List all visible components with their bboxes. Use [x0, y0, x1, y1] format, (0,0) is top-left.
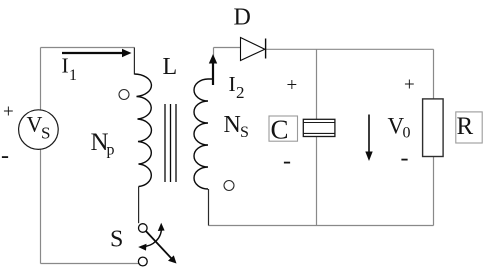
svg-text:+: +: [404, 75, 415, 96]
switch S: [138, 223, 176, 266]
svg-text:N: N: [224, 112, 241, 138]
switch top contact: [139, 224, 148, 233]
wire: left vertical lower (source bottom lead): [40, 150, 42, 264]
wire: top-left horizontal from source to primary: [41, 47, 135, 49]
svg-text:R: R: [457, 113, 474, 140]
arrow I2: [209, 54, 217, 85]
svg-text:0: 0: [403, 125, 411, 142]
diode D: [241, 38, 266, 61]
svg-text:I: I: [62, 54, 69, 78]
svg-text:S: S: [41, 124, 50, 143]
wire: primary bottom lead to switch: [138, 187, 140, 224]
wire: secondary bottom lead: [208, 189, 210, 226]
transformer core: [165, 104, 176, 182]
resistor R body: [423, 99, 444, 157]
inductor primary winding Np: [134, 74, 151, 187]
arrow I1: [62, 49, 132, 57]
wire: right vertical to resistor top: [433, 49, 435, 99]
phase dot primary: [119, 90, 129, 100]
svg-text:1: 1: [69, 67, 77, 84]
svg-text:+: +: [3, 102, 14, 123]
wire: resistor bottom lead: [433, 157, 435, 226]
wire: top horizontal diode-to-right corner: [266, 48, 434, 50]
wire: capacitor branch vertical: [316, 49, 318, 225]
wire: bottom-left horizontal to switch: [41, 263, 139, 265]
switch bottom contact: [138, 257, 147, 266]
svg-text:-: -: [283, 149, 291, 175]
capacitor C symbol: [303, 119, 335, 136]
svg-text:S: S: [110, 227, 123, 253]
svg-text:-: -: [1, 143, 9, 169]
svg-text:L: L: [163, 54, 178, 80]
wire: bottom-right horizontal: [209, 225, 434, 227]
phase dot secondary: [224, 181, 234, 191]
svg-text:2: 2: [236, 83, 245, 102]
svg-text:+: +: [287, 75, 298, 96]
wire: top horizontal secondary-to-diode: [214, 47, 241, 49]
svg-text:C: C: [271, 115, 289, 145]
inductor secondary winding NS: [194, 79, 213, 189]
svg-text:I: I: [229, 72, 236, 96]
label box R: [456, 112, 482, 143]
wire: secondary top lead: [213, 48, 215, 63]
switch motion arc arrow: [141, 226, 161, 246]
wire: left vertical upper (source top lead): [40, 48, 42, 111]
svg-text:S: S: [240, 124, 249, 141]
switch lever with arrowhead: [146, 231, 172, 259]
arrow V0: [365, 115, 372, 162]
label box C: [269, 116, 298, 141]
svg-text:D: D: [234, 5, 251, 31]
svg-text:-: -: [401, 146, 409, 172]
wire: primary top lead: [133, 48, 135, 75]
svg-text:p: p: [107, 142, 115, 159]
voltage source VS circle: [19, 110, 59, 150]
